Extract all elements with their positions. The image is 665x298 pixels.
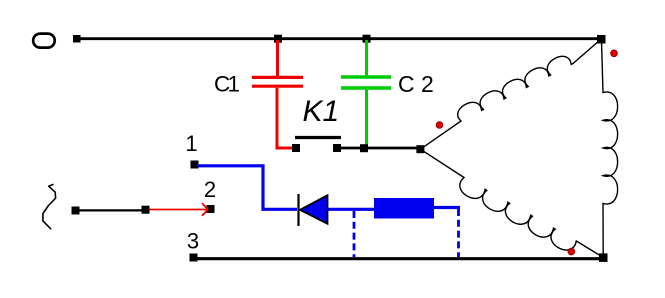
svg-text:K1: K1	[303, 95, 340, 128]
svg-text:1: 1	[185, 131, 197, 156]
node: C2 top junction	[363, 35, 371, 43]
wire: blue from terminal 1 to diode	[197, 166, 297, 210]
node: source output terminal	[72, 207, 80, 215]
capacitor C1	[252, 40, 303, 147]
wire: blue resistor to right dashed link	[434, 206, 460, 209]
node: terminal 1	[191, 161, 199, 169]
node: arrow start junction	[142, 206, 150, 214]
motor winding: right coil	[602, 41, 618, 255]
resistor R (blue block)	[374, 198, 434, 219]
wire: blue diode to resistor	[328, 208, 374, 211]
motor winding: top-left coil	[420, 40, 600, 149]
AC source symbol (~)	[43, 185, 56, 229]
red dot marker (bottom right)	[568, 248, 575, 255]
switch K1 contact bar	[295, 136, 341, 139]
red dot marker (left of delta)	[436, 122, 443, 129]
wire: source to arrow start node	[79, 209, 142, 211]
svg-text:C1: C1	[214, 72, 240, 97]
wire: switch to delta left vertex	[337, 147, 420, 150]
node: C2 bottom junction	[360, 144, 368, 152]
node: delta left vertex	[416, 145, 424, 153]
wire: red C1 bottom to switch terminal	[276, 147, 296, 150]
node: top bus left terminal	[73, 35, 81, 43]
dashed link left (to phase 3 bus)	[353, 211, 356, 257]
capacitor C2	[341, 40, 391, 148]
node: delta bottom vertex	[599, 253, 608, 262]
motor winding: bottom-left coil	[420, 149, 600, 256]
node: delta top vertex	[597, 35, 606, 44]
node: terminal 3	[190, 254, 198, 262]
node 0 (phase 0 terminal label)	[33, 34, 55, 48]
node: switch K1 left terminal	[292, 144, 300, 152]
wire: bottom bus (phase 3)	[197, 257, 604, 260]
node: C1 top junction	[274, 35, 282, 43]
red dot marker (top right)	[611, 50, 618, 57]
wire: top bus (phase 0)	[77, 37, 601, 40]
svg-text:2: 2	[204, 177, 216, 202]
svg-text:3: 3	[187, 229, 199, 254]
diode VD1	[300, 195, 328, 224]
dashed link right (to phase 3 bus)	[457, 209, 460, 257]
diode VD1 cathode bar	[297, 194, 299, 226]
arrow: red rotation/phase indicator	[149, 203, 208, 216]
svg-text:C 2: C 2	[398, 71, 434, 97]
node: terminal 2	[207, 205, 215, 213]
node: switch K1 right terminal	[333, 144, 341, 152]
